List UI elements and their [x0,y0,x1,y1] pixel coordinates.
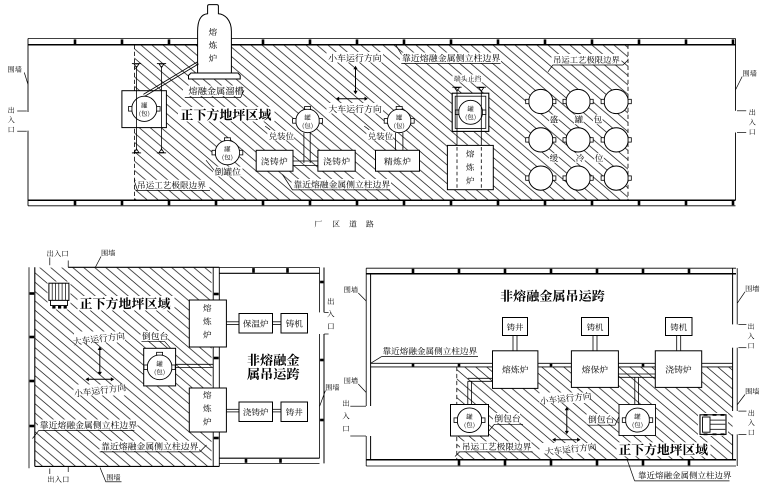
melting furnace box 2 (left bldg) [189,388,226,432]
molten metal launder (double diagonal line) [143,62,197,95]
right wall with gate gap [319,268,321,313]
melting furnace box 1 (left bldg) [189,300,226,347]
pouring furnace box 2 [318,150,355,171]
label column boundary 2 (left bldg) [100,441,200,451]
label trolley direction (right bldg) [540,393,591,404]
bottom wall (right bldg) [366,459,736,461]
connector furnace1-holding [226,321,239,323]
casting pit box (right bldg) [503,318,528,336]
label jiao-zhu-lu 2 [323,157,349,165]
furnace label (vertical, right box) [466,150,474,158]
caster box 1 (right bldg) [582,318,609,336]
melting furnace bottle shape [198,5,232,73]
bold title non-molten bay (right bldg) [501,290,605,302]
ladle circle 4 [387,109,411,133]
label entrance right wall (vertical) [328,298,334,305]
top wall left-hatched part (single line) [68,266,219,268]
striped machine symbol (right bldg) [698,413,728,436]
label bao-wen-lu [243,320,268,328]
connector bars between pouring furnaces [303,133,305,163]
bold title non-molten bay (left bldg) [247,354,299,366]
label zhu-ji 2 [671,323,687,331]
label duan-tou-zhi-dang (end stop) [453,75,484,83]
bottom boundary of hatched bay [35,465,220,467]
holding furnace box [239,314,273,334]
label dao-bao-tai 2 (right bldg) [587,414,614,424]
stem to refining furnace [395,133,397,151]
bottom wall (double line with column ticks) [28,199,736,201]
bold title ground area (right bldg) [617,442,711,456]
ladle circle 2 [215,140,239,164]
caster box 2 (right bldg) [666,318,693,336]
connector furnace2-pouring [226,408,239,410]
label jing-lian-lu [384,157,410,165]
ladle circle 2 (right bldg) [626,408,650,432]
left rail end stops (bottom) [132,152,141,154]
vertical arrow (right bldg) [566,409,568,432]
label entrance bottom-left [48,476,69,483]
casting pit box [281,402,308,422]
label rong-bao-lu [582,365,608,373]
caster box [281,314,308,334]
label dui-zhuang-wei 1 [267,131,294,141]
label zhu-jing (right bldg) [507,323,523,331]
connector ladle to furnace line [176,363,214,365]
label entrance top-left [47,250,68,257]
right wall (right bldg) with gaps [732,268,734,324]
stem caster2-furnace [676,336,678,351]
label rong-rong-jin-shu-liu-cao [183,86,243,97]
hatched crane-operation zone (top building) [134,45,628,201]
holding furnace box (right bldg) [571,351,618,388]
right rail end stops [452,86,461,88]
left crane rails [136,66,138,151]
ladle stand box (left) [122,91,166,128]
label dao-bao-tai 1 (right bldg) [493,413,520,423]
label wall bottom (left bldg) [107,474,120,481]
right end wall with gate gap [735,39,737,111]
label bridge direction (right bldg) [540,443,591,454]
label trolley direction (slanted) [74,385,125,396]
connector furnace to ladle 1 [467,381,469,404]
ladle circle guan-bao (left) [132,96,157,121]
ladle circle (left bldg) [147,355,172,380]
label column boundary 1 (left bldg) [38,420,138,430]
ladle circle 1 (right bldg) [457,408,482,433]
melting furnace box (right bldg) [493,351,538,389]
top wall (right bldg) [366,267,736,269]
label wall right side (left bldg) [326,384,339,391]
label entrance 1 (right wall) [748,323,754,329]
right crane rails (upper) [456,91,458,146]
rails dashed inside furnace box [456,147,458,188]
label column boundary (top) [400,53,501,64]
hatched zone (right building crane bay) [457,367,733,460]
label crane process limit (top-right) [552,54,622,65]
label sheng-guan-bao (between rows) [549,115,559,125]
hatched zone (left building crane bay) [35,268,212,467]
left rail end stops (top) [132,63,141,65]
bold title ground area (top bldg) [178,107,275,122]
label wall (right bldg left-top) [344,286,357,293]
horizontal arrow (left bldg) [88,378,112,380]
ladle circle 5 [459,100,483,124]
ladle circle 3 [296,109,320,133]
label jiao-zhu-lu 1 [261,157,287,165]
top wall (double line with column ticks) [28,38,736,40]
furnace 2 label [203,391,211,399]
label wei-qiang top-right [743,70,756,77]
label crane process limit (right bldg) [460,441,532,451]
label wall (right bldg right-bottom) [746,388,759,395]
bold title ground area (left bldg) [78,296,175,311]
striped machine symbol [48,282,71,310]
horizontal double arrow [338,98,365,100]
bottom wall right part (double with ticks) [219,457,319,459]
horizontal arrow (right bldg) [555,439,579,441]
label dui-zhuang-wei 2 [366,131,393,141]
label entrance 2 (right wall) [748,410,754,416]
ladle stand box 2 (right bldg) [619,405,656,436]
crane limit dashed line (right bldg) [456,367,458,460]
stem caster1-furnace [592,336,594,351]
label column boundary bottom (right bldg) [639,471,732,479]
label bridge direction (slanted) [74,332,125,343]
left wall (double with column ticks) [28,267,30,468]
crane limit dashed line (left) [133,45,135,201]
label jiao-zhu-lu (left bldg) [243,408,268,416]
label rong-lian-lu (right bldg) [502,365,528,373]
label zhu-ji (caster) [286,320,303,328]
washing-cast furnace box [655,351,701,388]
label entrance top-left (vertical) [8,107,14,113]
label zhu-jing (casting pit) [286,408,303,416]
label wall top (left bldg) [102,249,115,256]
factory road label [315,221,322,228]
furnace 1 label [203,304,211,312]
vertical arrow (left bldg) [99,349,101,373]
label column boundary top (right bldg) [383,347,477,355]
pouring furnace box 1 [256,150,293,171]
label bridge travel direction [327,103,384,114]
left end wall with gate gap [27,39,29,113]
label column boundary (bottom) [292,179,392,189]
ladle stand box (left bldg) [144,348,176,386]
label entrance (right bldg left wall) [343,400,349,407]
crane limit dashed line (right) [627,45,629,201]
refining furnace box [376,150,420,171]
connector holding to washing + ladle 2 [618,373,655,375]
stem pit-furnace [512,336,514,351]
ladle stand box 1 (right bldg) [451,405,489,437]
label wall (right bldg left-bottom) [344,377,357,384]
right ladle stand double box [452,93,489,131]
3x3 grid of holding ladles [529,89,553,113]
internal column line [212,267,214,300]
label zhu-ji 1 [587,323,603,331]
vertical double arrow [355,68,357,92]
label entrance top-right (vertical) [749,109,755,115]
label dao-bao-tai [141,331,168,341]
furnace label rong-lian-lu (vertical) [209,28,217,36]
label jiao-zhu-lu (right bldg) [666,365,692,373]
internal column line (right bldg) [371,362,733,364]
pouring furnace box (left bldg) [239,402,273,422]
melting furnace box (right) [447,145,493,189]
label wei-qiang (enclosure wall) top-left [8,66,21,73]
connector pouring-pit [273,408,282,410]
label trolley travel direction [327,52,384,63]
label dao-guan-wei (ladle tipping position) [213,167,243,177]
label wall (right bldg right-top) [746,285,759,292]
top wall right part (double with ticks) [219,267,319,269]
left wall (right bldg) with gap [365,268,367,406]
connector holding-caster [273,321,282,323]
label huan-leng-wei (cooling positions) [549,153,559,163]
label crane process limit (bottom-left) [136,180,210,190]
